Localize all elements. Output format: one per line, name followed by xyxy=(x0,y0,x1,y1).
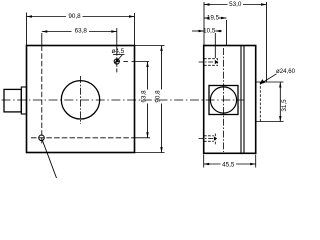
dim 63.8 vertical: line xyxy=(147,62,149,90)
dim 90.8 top: line xyxy=(27,16,67,18)
hole C1 vertical centerline xyxy=(116,46,118,74)
dim 63.8 top: line xyxy=(42,31,72,33)
leader from hole C2 xyxy=(42,140,56,178)
extension 19.5 xyxy=(226,20,228,46)
hidden hole bottom: centerline xyxy=(199,138,214,140)
hidden hole top: wall upper xyxy=(204,58,217,60)
extension 10.5 into part xyxy=(214,33,216,58)
dim 63.8 arrow left xyxy=(42,30,48,32)
dim 19.5 arrow right xyxy=(221,17,227,19)
dim 53.0 arrow left xyxy=(204,3,210,5)
internal edge line 1 xyxy=(240,46,242,154)
hidden hole bottom: drill point xyxy=(214,136,217,140)
leader ø4,5 diagonal xyxy=(116,55,123,63)
big bore circle xyxy=(61,81,99,119)
svg-text:63,8: 63,8 xyxy=(141,90,148,103)
dim 10.5 arrow right xyxy=(215,30,221,32)
dim 63.8 vertical arrow top xyxy=(146,62,148,68)
dim 53.0: extension right xyxy=(266,2,268,82)
dim 90.8 arrow left xyxy=(27,15,33,17)
svg-text:90,8: 90,8 xyxy=(155,90,162,103)
front view body outline xyxy=(27,46,135,153)
dim 45.5: extension right xyxy=(255,155,257,168)
dim 31.5 arrow top xyxy=(279,82,281,88)
dim 10.5: line right xyxy=(215,30,222,32)
dim 45.5 arrow right xyxy=(250,163,256,165)
leader ø24,60 xyxy=(261,74,277,84)
svg-text:45,5: 45,5 xyxy=(222,161,235,168)
svg-text:ø4,5: ø4,5 xyxy=(112,48,125,55)
hole C2 horizontal centerline xyxy=(31,137,135,139)
hole C1 centerline dash right xyxy=(124,61,129,63)
dim 53.0 arrow right xyxy=(261,3,267,5)
svg-text:10,5: 10,5 xyxy=(203,28,216,35)
dim 45.5: extension left xyxy=(203,155,205,168)
hidden hole top: drill point xyxy=(215,60,219,64)
hole C2 bottom-left ø4.5 xyxy=(39,135,45,141)
tab body xyxy=(4,89,21,112)
hidden hole bottom: wall lower xyxy=(204,140,214,142)
leader ø4,5 arrowhead xyxy=(115,59,120,63)
extension 31.5 bottom xyxy=(257,121,284,123)
dim 63.8 vertical arrow bottom xyxy=(146,132,148,138)
hidden hole top: centerline xyxy=(199,61,214,63)
svg-text:19,5: 19,5 xyxy=(207,15,220,22)
dim 53.0: extension left xyxy=(203,2,205,46)
svg-text:63,8: 63,8 xyxy=(75,28,88,35)
dim 19.5: line xyxy=(204,17,207,19)
dim 19.5 arrow left xyxy=(204,17,210,19)
dim 10.5: line left xyxy=(192,30,204,32)
side view outline xyxy=(204,46,256,154)
dim 90.8 top: extension line right xyxy=(134,13,136,46)
dim 63.8 top: extension right upper xyxy=(116,28,118,46)
dim 45.5: line xyxy=(204,163,221,165)
svg-text:90,8: 90,8 xyxy=(68,13,81,20)
hole C2 vertical centerline / extension of 63.8 dim xyxy=(41,33,43,46)
svg-text:53,0: 53,0 xyxy=(229,1,242,8)
dim 63.8 arrow right xyxy=(111,30,117,32)
extension 31.5 top xyxy=(257,81,284,83)
hole C1 top-right ø4.5 xyxy=(114,59,119,64)
boss square xyxy=(209,86,238,115)
leader ø4,5 underline xyxy=(113,54,125,56)
hidden hole bottom: depth tick xyxy=(214,134,216,146)
dim 31.5: line xyxy=(279,82,281,122)
extension bottom edge to vertical 90.8 dim xyxy=(135,152,165,154)
extension top edge to vertical 90.8 dim xyxy=(135,45,165,47)
hidden edge right (tab) xyxy=(259,82,261,122)
horizontal centerline through both views xyxy=(2,99,244,101)
tab collar on left face xyxy=(21,87,26,114)
boss circle xyxy=(210,87,236,113)
internal edge line 2 xyxy=(243,46,245,154)
svg-text:ø24,60: ø24,60 xyxy=(276,68,296,75)
dim 90.8 vertical: line xyxy=(161,46,163,90)
leader ø24,60 arrowhead xyxy=(260,79,265,84)
big circle vertical centerline xyxy=(80,76,82,124)
hidden hole bottom: wall upper xyxy=(204,135,214,137)
hole C1 extension to 63.8 dim xyxy=(132,61,150,63)
dim 90.8 top: extension line left xyxy=(26,13,28,46)
dim 90.8 arrow right xyxy=(129,15,135,17)
hole C2 extension to 63.8 dim xyxy=(135,137,151,139)
dim 31.5 arrow bottom xyxy=(279,116,281,122)
dim 90.8 vertical arrow top xyxy=(160,46,162,52)
dim 45.5 arrow left xyxy=(204,163,210,165)
boss vertical centerline xyxy=(223,48,225,152)
hidden hole top: bottom xyxy=(216,58,218,66)
svg-text:31,5: 31,5 xyxy=(281,99,288,112)
dim 53.0: line xyxy=(204,4,228,6)
dim 10.5 arrow left xyxy=(199,30,205,32)
dim 90.8 vertical arrow bottom xyxy=(160,147,162,153)
hidden hole top: wall lower xyxy=(204,64,217,66)
